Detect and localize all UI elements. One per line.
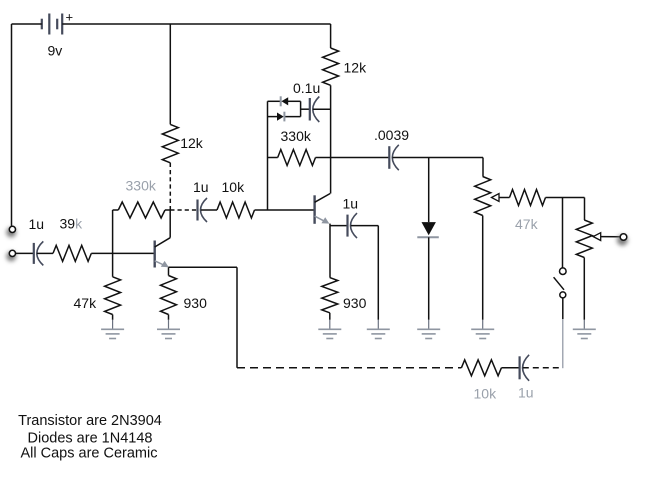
svg-text:10k: 10k xyxy=(474,385,498,401)
svg-text:Diodes are 1N4148: Diodes are 1N4148 xyxy=(28,430,153,446)
node base Q1 / bias junction xyxy=(112,252,114,254)
wire 12k R5 top lead xyxy=(169,24,171,124)
wire R6 to Q2 base xyxy=(255,209,314,211)
wire D3 to ground xyxy=(428,237,430,319)
wire C4 to ground drop xyxy=(351,226,379,320)
wire top rail left segment xyxy=(12,23,42,25)
wire diode branch top line xyxy=(268,100,301,102)
wire corner down to VR2 xyxy=(584,198,586,221)
svg-text:10k: 10k xyxy=(222,179,246,195)
battery value 9v xyxy=(48,43,63,59)
input jack J1 (sleeve) xyxy=(6,226,16,237)
label R2 330k xyxy=(126,178,157,194)
svg-text:9v: 9v xyxy=(48,43,63,59)
svg-text:930: 930 xyxy=(343,295,367,311)
diode D1 (points left) xyxy=(281,96,289,106)
wire Q1 emitter tap right xyxy=(169,266,238,268)
wire C5 to pot corner xyxy=(393,157,484,159)
wire tap corner down xyxy=(236,267,238,368)
wire bias node down to R3 xyxy=(112,253,114,276)
wire R1 to Q1 base xyxy=(91,252,153,254)
potentiometer VR2 wiper arrow xyxy=(593,233,601,241)
wire bottom dashed run xyxy=(237,367,461,369)
output jack J3 xyxy=(617,234,628,246)
wire R3 to ground xyxy=(112,315,114,320)
label C4 1u xyxy=(343,196,359,212)
diode D2 (points right) xyxy=(277,112,284,122)
svg-text:930: 930 xyxy=(184,295,208,311)
transistor Q1 2N3904 xyxy=(155,238,171,268)
svg-text:12k: 12k xyxy=(344,59,368,75)
svg-text:12k: 12k xyxy=(180,135,204,151)
svg-text:1u: 1u xyxy=(193,179,209,195)
label C2 1u xyxy=(193,179,209,195)
label R4 930 xyxy=(184,295,208,311)
svg-text:47k: 47k xyxy=(74,295,98,311)
wire VR1 bottom to ground xyxy=(482,216,484,320)
label R7 330k xyxy=(281,128,312,144)
label C1 1u xyxy=(29,216,45,232)
switch SW1 bottom contact xyxy=(560,292,566,298)
input jack J2 (tip) xyxy=(6,250,16,261)
transistor Q2 2N3904 xyxy=(315,194,331,224)
resistor R4 930 (Q1 emitter) xyxy=(161,276,177,315)
wire collector node to C5 xyxy=(331,157,390,159)
wire junction down to switch xyxy=(562,198,564,268)
ground (R9) xyxy=(318,320,341,339)
battery plus sign xyxy=(66,10,74,25)
ground (R4) xyxy=(157,320,180,339)
wire Q2 emitter down to R9 xyxy=(329,226,331,278)
ground (VR1) xyxy=(471,320,494,339)
wire switch down xyxy=(562,298,564,368)
wire Q2 emitter node xyxy=(330,224,347,226)
ground (C4) xyxy=(367,320,390,339)
wire C6 to switch corner dashed xyxy=(523,367,563,369)
resistor R1 39k xyxy=(53,245,91,261)
wire R10 to VR2 corner xyxy=(546,197,585,199)
resistor R6 10k xyxy=(217,202,255,218)
wire top rail right segment xyxy=(62,23,330,25)
wire corner down to VR1 xyxy=(482,158,484,177)
switch SW1 top contact xyxy=(560,268,567,275)
svg-text:47k: 47k xyxy=(515,216,539,232)
potentiometer VR1 wiper arrow xyxy=(492,194,500,202)
wire VR2 wiper to output jack xyxy=(601,236,621,238)
resistor R2 330k (bias) xyxy=(113,202,171,218)
capacitor C5 .0039 xyxy=(389,145,399,170)
battery B1 9v xyxy=(42,14,62,35)
capacitor C2 1u (interstage) xyxy=(198,198,208,222)
label R3 47k xyxy=(74,295,98,311)
potentiometer VR2 body xyxy=(576,220,592,258)
svg-text:330k: 330k xyxy=(281,128,312,144)
resistor R9 930 (Q2 emitter) xyxy=(322,278,338,313)
ground (R3) xyxy=(101,320,124,339)
label R1 39k xyxy=(60,216,84,232)
label R5 12k xyxy=(180,135,204,151)
svg-text:1u: 1u xyxy=(29,216,45,232)
resistor R10 47k xyxy=(510,190,546,206)
label R10 47k xyxy=(515,216,539,232)
capacitor C6 1u (bottom) xyxy=(520,355,530,381)
wire J2 to C1 xyxy=(16,252,34,254)
label R6 10k xyxy=(222,179,246,195)
wire R4 to ground xyxy=(168,315,170,320)
diode D3 (to ground) xyxy=(417,222,439,237)
label R11 10k xyxy=(474,385,498,401)
wire bias node up to R2 xyxy=(112,210,114,253)
wire 12k R8 top lead xyxy=(330,24,332,48)
svg-text:39k: 39k xyxy=(60,216,84,232)
wire R11 to C6 xyxy=(501,367,519,369)
note line 2 xyxy=(28,430,153,446)
svg-text:Transistor are 2N3904: Transistor are 2N3904 xyxy=(18,413,162,429)
wire node to C2 dashed xyxy=(170,209,197,211)
svg-text:All Caps are Ceramic: All Caps are Ceramic xyxy=(21,445,158,461)
switch SW1 lever xyxy=(554,277,564,290)
note line 3 xyxy=(21,445,158,461)
wire diode box right rail xyxy=(300,101,302,116)
wire clip diode drop xyxy=(428,158,430,223)
resistor R11 10k (bottom) xyxy=(461,360,501,376)
ground (D3) xyxy=(417,320,440,339)
wire R5 bottom dashed xyxy=(169,163,171,210)
wire C2 to R6 xyxy=(201,209,217,211)
svg-text:.0039: .0039 xyxy=(374,127,409,143)
label C6 1u xyxy=(518,384,534,400)
ground (VR2) xyxy=(573,320,596,339)
potentiometer VR1 body xyxy=(475,177,491,216)
wire feedback left rail xyxy=(267,101,269,210)
resistor R3 47k xyxy=(105,277,121,315)
wire box to C3 xyxy=(301,108,310,110)
wire R9 to ground xyxy=(329,313,331,320)
wire C3 to collector rail xyxy=(313,108,331,110)
wire R8 down to Q2 collector xyxy=(330,85,332,193)
svg-text:330k: 330k xyxy=(126,178,157,194)
label C5 .0039 xyxy=(374,127,409,143)
label R8 12k xyxy=(344,59,368,75)
label R9 930 xyxy=(343,295,367,311)
resistor R7 330k (feedback) xyxy=(268,150,331,166)
svg-text:+: + xyxy=(66,10,74,25)
label C3 0.1u xyxy=(293,80,320,96)
svg-text:0.1u: 0.1u xyxy=(293,80,320,96)
capacitor C1 1u (input) xyxy=(34,241,44,265)
note line 1 xyxy=(18,413,162,429)
wire diode branch bottom line xyxy=(268,116,301,118)
capacitor C3 0.1u xyxy=(310,97,320,123)
resistor R8 12k xyxy=(323,48,339,85)
svg-text:1u: 1u xyxy=(518,384,534,400)
wire left rail down to input jack xyxy=(11,24,13,226)
wire VR1 wiper to R10 xyxy=(499,197,510,199)
svg-text:1u: 1u xyxy=(343,196,359,212)
capacitor C4 1u (emitter bypass) xyxy=(348,213,358,238)
wire C1 to R1 xyxy=(37,252,53,254)
resistor R5 12k xyxy=(162,124,178,162)
wire VR2 bottom to ground xyxy=(583,258,585,320)
wire Q1 collector up xyxy=(169,210,171,238)
wire Q1 emitter down to R4 xyxy=(168,267,170,275)
